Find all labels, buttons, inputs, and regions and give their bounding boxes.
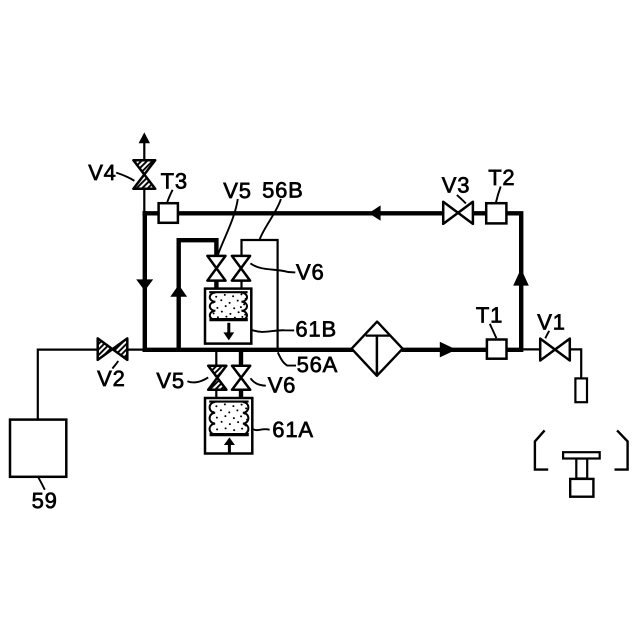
svg-text:V1: V1 [537,310,566,335]
svg-text:V3: V3 [442,172,471,197]
wire: tank 59 line to V2 (thin) [38,350,98,420]
flow arrow (up) on right vertical [513,269,529,286]
svg-text:56A: 56A [297,352,339,377]
wire: V5 lower valve to 61A container (thin stem) [215,389,217,399]
sample stage symbol: right bracket [615,430,628,469]
valve V2 (hatched, horizontal) [98,338,128,360]
flow arrow (down) on left vertical [136,279,153,290]
wire: bottom line down to V6 lower valve (thick stub) [239,350,243,367]
valve V5 lower (hatched, vertical) [208,366,226,390]
wire: left main vertical (thick) [143,211,147,352]
label 61B [252,316,337,341]
wire: bottom main line left of filter (thick) [143,348,353,352]
sample stage symbol: left bracket [535,430,548,469]
wire: V6 lower valve to 61A container (thick stem) [239,389,243,399]
container 61B [205,289,251,344]
supply arrow (up) inside 61A [224,437,235,445]
valve V5 upper (vertical) [207,256,225,281]
svg-text:61B: 61B [295,316,337,341]
label 56B [260,177,304,239]
wire: V2 to main junction (thin) [127,349,143,351]
svg-text:T1: T1 [476,303,503,328]
svg-text:T3: T3 [161,168,188,193]
wire: T2 to right corner, down right vertical (thick) [506,213,521,349]
svg-text:V4: V4 [88,160,117,185]
svg-text:59: 59 [32,488,58,513]
label V1 [537,310,566,339]
svg-text:T2: T2 [488,165,515,190]
wire: V1 to capped stub (thin) [570,349,582,378]
label 59 [32,477,58,513]
T1 box [487,340,507,359]
label T1 [476,303,503,339]
pipe 56B outline (thin) [242,240,278,349]
T3 box [159,203,178,223]
label V5 (lower) [156,368,208,393]
container 61A [205,398,252,454]
svg-text:V6: V6 [268,372,297,397]
wire: V5 top valve to 61B container (thick stem) [214,280,218,290]
wire: V6 upper valve to 61B container (thin stem) [240,280,242,290]
capped pipe end after V1 [575,378,587,402]
tank 59 [10,420,66,477]
svg-text:56B: 56B [262,177,304,202]
svg-text:V2: V2 [97,366,126,391]
valve V6 upper (vertical) [232,256,250,281]
label T2 [488,165,515,203]
wire: bottom main line filter to T1 (thick) [402,348,488,352]
vent arrow (up) above V4 [139,132,150,143]
flow arrow (up) on 61B loop riser [170,285,187,297]
T2 box [486,203,506,223]
label V5 (upper) [218,178,252,255]
valve V4 (hatched, vertical) [133,160,155,189]
svg-text:V6: V6 [296,260,325,285]
label V2 [97,361,126,391]
wire: bottom line to V5 lower valve (thin stem) [215,352,217,367]
wire: right vertical to V1 (thin) [523,348,540,350]
label V6 (lower) [251,372,297,397]
label 61A [252,417,314,442]
wire: vent line above V4 (thin) [143,143,145,161]
label V4 [88,160,134,185]
wire: V3 to T2 (thick) [473,211,487,215]
flow arrow (left-pointing) on top main line [369,205,381,220]
svg-text:V5: V5 [156,368,185,393]
wire: T1 to right vertical (thick) [506,348,523,352]
valve V1 (horizontal) [540,339,570,361]
valve V3 (horizontal) [443,202,473,224]
flow arrow (right-pointing) before T1 [440,342,457,358]
wire: top main line (thick) from left corner to V3 [143,211,444,215]
label V6 (upper) [250,260,324,285]
label V3 [442,172,471,203]
label T3 [161,168,188,203]
sample stage symbol: top bar [563,452,600,458]
wire: V4 to top corner (thin) [143,188,145,212]
label 56A [278,352,338,377]
sample stage symbol: base box [570,479,593,497]
valve V6 lower (vertical) [232,366,250,390]
wire: 61B loop riser and top run (thick) [179,240,217,352]
filter (diamond) [352,322,403,376]
sample stage symbol: stem [576,459,587,479]
svg-text:61A: 61A [272,417,314,442]
discharge arrow (down) inside 61B [227,323,230,333]
